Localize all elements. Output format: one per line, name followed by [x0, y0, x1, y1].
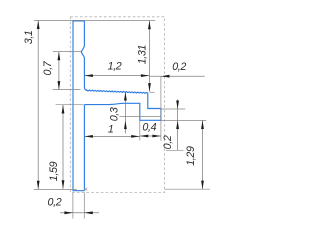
extension line vertical x=72.9 bottom: [72, 193, 74, 219]
dimension 0,2 bottom line: [60, 212, 99, 214]
dimension 0,3 arrow upper: [124, 92, 127, 101]
dimension 0,3 arrow lower: [124, 121, 127, 130]
dimension 1,29 arrow up: [201, 121, 204, 130]
extension line 0,7 bottom (y=89.6): [53, 89, 81, 91]
dimension 1,29 arrow down: [201, 181, 204, 190]
dimension 0,7 arrow up: [58, 52, 61, 61]
svg-text:0,2: 0,2: [172, 61, 186, 73]
dimension 1,31 arrow up: [148, 21, 151, 30]
dimension 0,7 arrow down: [58, 81, 61, 90]
svg-text:0,4: 0,4: [142, 122, 156, 134]
dimension 0,2 bottom left arrow: [64, 211, 73, 214]
dimension 0,2 right arrow bottom: [176, 121, 179, 130]
svg-text:0,7: 0,7: [42, 60, 54, 75]
dimension 0,4 line: [140, 135, 161, 137]
dimension 3,1 line: [37, 21, 39, 190]
profile outline right edge with notch, flange top and step: [81, 21, 160, 120]
extension line top (y=20.4): [34, 19, 156, 21]
shelf line 0,2 right (y=150.3): [166, 149, 183, 151]
svg-text:1,2: 1,2: [108, 61, 122, 73]
point marker x at wall bottom right: [84, 188, 87, 191]
extension line notch (y=51.6): [53, 51, 81, 53]
profile right edge lower segment: [83, 105, 85, 191]
dimension 1 line: [84, 135, 139, 137]
dimension 1,59 line: [62, 105, 64, 189]
extension stub at 1,31 bottom (y=92.3): [150, 91, 155, 93]
extension line 1,59 top (y=104.7): [56, 104, 84, 106]
extension line step bottom right (y=120.4): [161, 119, 206, 121]
dimension 0,2 bottom right arrow: [84, 211, 93, 214]
svg-text:0,2: 0,2: [48, 196, 62, 208]
svg-text:1,29: 1,29: [185, 146, 197, 166]
dimension 3,1 arrow down: [37, 181, 40, 190]
dimension 0,2 right line: [177, 100, 179, 151]
svg-text:1,59: 1,59: [48, 161, 60, 181]
profile outline left wall (top cap, left edge, bottom cap): [73, 21, 84, 191]
dimension 1 arrow left: [84, 135, 93, 138]
dimension 0,4 arrow right: [152, 135, 161, 138]
dimension 0,4 arrow left: [140, 135, 149, 138]
dimension 1,31 arrow down: [148, 83, 151, 92]
dimension 1,29 line: [202, 120, 204, 189]
dimension 0,3 line: [124, 92, 126, 134]
dimension 1,31 line: [148, 21, 150, 92]
dimension 1,59 arrow down: [62, 180, 65, 189]
dimension 1,2 arrow left: [84, 74, 93, 77]
bounding box (dashed selection rectangle): [70, 17, 164, 193]
extension line bottom left (y=189.35): [34, 188, 77, 190]
svg-text:0,2: 0,2: [162, 135, 174, 149]
extension line bottom right (y=189.2): [165, 188, 210, 190]
dimension 0,2 right arrow top: [176, 101, 179, 110]
extension line vertical x=139.8: [139, 121, 141, 141]
dimension 0,7 line: [58, 52, 60, 90]
dimension 1 arrow right: [131, 135, 140, 138]
extension line step top right (y=109.0): [161, 108, 185, 110]
extension line vertical x=160.9: [160, 76, 162, 140]
svg-text:3,1: 3,1: [23, 30, 35, 44]
extension line vertical x=84.3 bottom: [83, 193, 85, 219]
dimension 3,1 arrow up: [37, 21, 40, 30]
dimension 1,59 arrow up: [62, 105, 65, 114]
dimension 1,2 arrow right: [141, 74, 150, 77]
dimension 1,2 line: [84, 75, 149, 77]
dimension 0,2 top line with tail: [149, 75, 204, 77]
svg-text:0,3: 0,3: [109, 107, 121, 121]
svg-text:1: 1: [108, 124, 114, 136]
svg-text:1,31: 1,31: [137, 44, 149, 64]
shelf line 0,3 (y=116.6): [120, 116, 161, 118]
dimension 0,2 top arrow: [161, 75, 170, 78]
